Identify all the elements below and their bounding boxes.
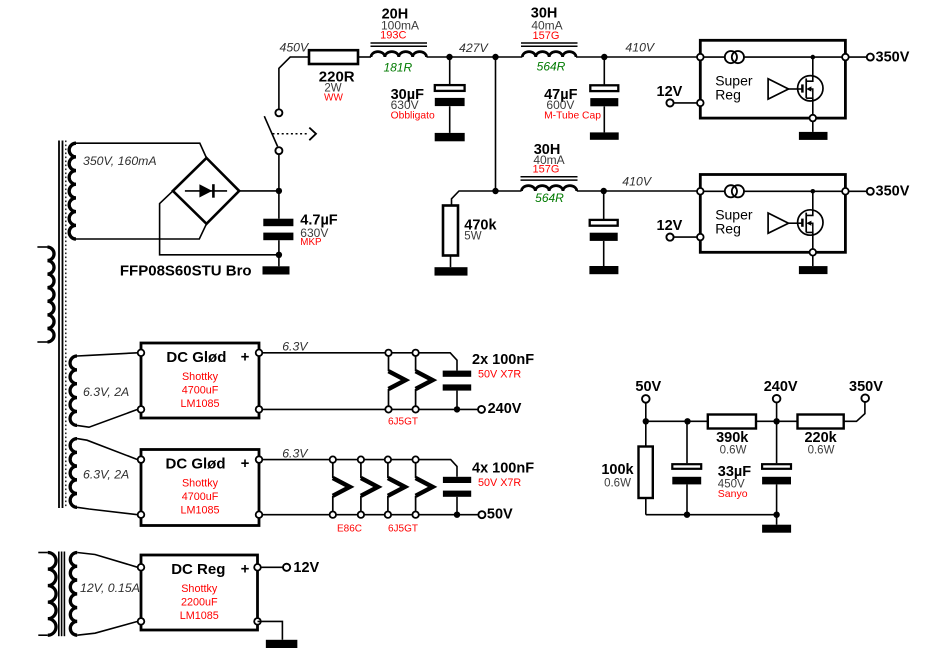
svg-text:50V X7R: 50V X7R	[478, 368, 521, 380]
svg-text:6.3V, 2A: 6.3V, 2A	[83, 385, 129, 399]
svg-text:12V, 0.15A: 12V, 0.15A	[80, 581, 140, 595]
svg-text:4x 100nF: 4x 100nF	[472, 460, 534, 476]
svg-text:157G: 157G	[533, 163, 560, 175]
svg-text:MKP: MKP	[300, 237, 322, 248]
svg-text:410V: 410V	[625, 41, 656, 55]
svg-text:Obbligato: Obbligato	[391, 111, 435, 122]
svg-text:+: +	[241, 455, 250, 472]
svg-text:+: +	[241, 349, 250, 366]
svg-text:12V: 12V	[657, 84, 683, 100]
svg-text:4700uF: 4700uF	[182, 491, 219, 503]
svg-text:0.6W: 0.6W	[808, 445, 835, 457]
svg-text:LM1085: LM1085	[180, 610, 219, 622]
svg-text:Sanyo: Sanyo	[718, 488, 748, 500]
svg-text:0.6W: 0.6W	[604, 477, 631, 489]
svg-text:181R: 181R	[383, 61, 412, 75]
svg-text:+: +	[241, 561, 250, 578]
svg-text:Shottky: Shottky	[182, 478, 219, 490]
svg-text:6J5GT: 6J5GT	[388, 416, 418, 427]
svg-text:50V: 50V	[487, 506, 513, 522]
svg-text:50V: 50V	[635, 379, 661, 395]
svg-text:6.3V: 6.3V	[282, 446, 309, 460]
svg-text:6.3V, 2A: 6.3V, 2A	[83, 468, 129, 482]
svg-text:LM1085: LM1085	[180, 505, 219, 517]
svg-text:DC Reg: DC Reg	[171, 561, 225, 578]
svg-text:350V: 350V	[849, 379, 883, 395]
svg-text:0.6W: 0.6W	[720, 445, 747, 457]
svg-text:6J5GT: 6J5GT	[388, 523, 418, 534]
svg-text:427V: 427V	[459, 41, 490, 55]
svg-text:12V: 12V	[293, 560, 319, 576]
svg-text:12V: 12V	[657, 218, 683, 234]
svg-text:193C: 193C	[380, 30, 406, 42]
svg-text:DC Glød: DC Glød	[166, 349, 226, 366]
svg-text:E86C: E86C	[337, 523, 362, 534]
svg-text:100k: 100k	[601, 462, 634, 478]
svg-text:564R: 564R	[537, 60, 566, 74]
svg-text:350V: 350V	[876, 50, 910, 66]
svg-text:410V: 410V	[622, 175, 653, 189]
svg-text:2x 100nF: 2x 100nF	[472, 352, 534, 368]
svg-text:240V: 240V	[764, 379, 798, 395]
svg-text:LM1085: LM1085	[180, 398, 219, 410]
svg-text:564R: 564R	[535, 191, 564, 205]
svg-text:450V: 450V	[280, 40, 311, 54]
svg-text:240V: 240V	[488, 401, 522, 417]
svg-text:WW: WW	[324, 93, 343, 104]
svg-text:4700uF: 4700uF	[182, 385, 219, 397]
svg-text:50V X7R: 50V X7R	[478, 477, 521, 489]
svg-text:Shottky: Shottky	[182, 371, 219, 383]
svg-text:DC Glød: DC Glød	[166, 456, 226, 473]
svg-text:FFP08S60STU Bro: FFP08S60STU Bro	[120, 263, 252, 280]
svg-text:Shottky: Shottky	[181, 583, 218, 595]
svg-text:6.3V: 6.3V	[282, 339, 309, 353]
svg-text:M-Tube Cap: M-Tube Cap	[544, 111, 601, 122]
svg-text:2200uF: 2200uF	[181, 597, 218, 609]
svg-text:Reg: Reg	[715, 87, 741, 103]
svg-text:350V: 350V	[876, 184, 910, 200]
svg-text:350V, 160mA: 350V, 160mA	[83, 154, 157, 168]
svg-text:157G: 157G	[533, 30, 560, 42]
svg-text:5W: 5W	[464, 230, 481, 242]
